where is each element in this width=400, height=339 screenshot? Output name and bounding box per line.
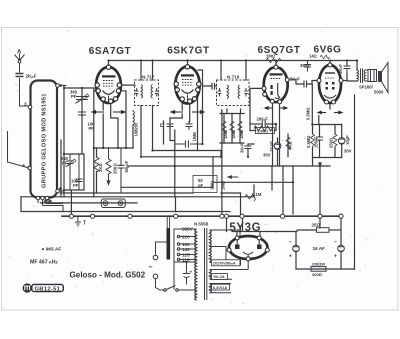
svg-text:6SA7GT: 6SA7GT	[89, 46, 132, 57]
svg-text:PF: PF	[89, 126, 95, 131]
svg-text:6SQ7GT: 6SQ7GT	[257, 45, 300, 56]
svg-text:−: −	[289, 240, 292, 246]
svg-text:300Ω: 300Ω	[312, 272, 322, 277]
svg-text:0,5MΩ: 0,5MΩ	[306, 135, 311, 148]
svg-text:pF: pF	[198, 183, 204, 188]
svg-text:~: ~	[149, 265, 153, 272]
svg-text:6V6G: 6V6G	[314, 45, 342, 56]
svg-text:3KPF: 3KPF	[240, 143, 245, 153]
svg-text:3: 3	[24, 102, 27, 107]
svg-text:GRUPPO GELOSO MOD NS1951: GRUPPO GELOSO MOD NS1951	[42, 93, 48, 188]
svg-text:PF: PF	[71, 94, 77, 99]
svg-text:230ΩW: 230ΩW	[312, 262, 326, 267]
svg-text:2X270V/80mA: 2X270V/80mA	[213, 261, 236, 265]
svg-text:6SK7GT: 6SK7GT	[167, 46, 210, 57]
svg-text:0,1M: 0,1M	[252, 192, 262, 197]
svg-text:1MΩ: 1MΩ	[266, 54, 275, 59]
svg-text:105PF: 105PF	[313, 136, 318, 148]
svg-text:+: +	[190, 270, 193, 275]
svg-text:N.5558: N.5558	[194, 222, 209, 227]
svg-text:25Ω: 25Ω	[312, 223, 321, 228]
svg-text:+: +	[334, 254, 337, 260]
svg-text:16 AF: 16 AF	[313, 246, 326, 251]
svg-text:UM6: UM6	[192, 131, 197, 141]
svg-text:200µF: 200µF	[257, 117, 269, 122]
svg-text:GB12-51: GB12-51	[35, 286, 61, 292]
svg-text:0,5MΩ: 0,5MΩ	[305, 107, 310, 120]
svg-text:6: 6	[60, 186, 63, 191]
svg-text:3MPF: 3MPF	[300, 63, 311, 68]
svg-text:3KPF: 3KPF	[338, 64, 343, 74]
svg-text:N.716: N.716	[227, 75, 240, 80]
svg-text:1MΩ: 1MΩ	[239, 130, 244, 139]
svg-text:2KΩ: 2KΩ	[98, 163, 103, 172]
svg-text:T: T	[83, 221, 86, 227]
svg-text:220: 220	[182, 234, 190, 239]
svg-text:6,3V/2A: 6,3V/2A	[213, 285, 228, 290]
svg-text:4KΩ: 4KΩ	[288, 141, 293, 150]
svg-text:PF: PF	[73, 183, 79, 188]
svg-text:A: A	[17, 50, 22, 56]
svg-text:30V: 30V	[263, 153, 271, 158]
svg-text:SP160/: SP160/	[359, 85, 374, 90]
svg-text:10 µF: 10 µF	[269, 141, 274, 152]
svg-text:20KΩ: 20KΩ	[112, 163, 117, 174]
svg-text:5Y3G: 5Y3G	[229, 222, 261, 234]
svg-text:50µPF: 50µPF	[124, 160, 129, 172]
svg-text:250Ω: 250Ω	[328, 138, 333, 148]
svg-text:10µF: 10µF	[345, 135, 350, 145]
svg-text:110: 110	[182, 257, 190, 262]
svg-text:● 965 AF: ● 965 AF	[42, 247, 62, 253]
svg-text:N.717: N.717	[142, 75, 155, 80]
svg-text:UM200: UM200	[134, 122, 139, 136]
svg-text:280V: 280V	[182, 226, 194, 231]
svg-text:−: −	[334, 240, 337, 246]
svg-text:0,5MΩ: 0,5MΩ	[257, 129, 268, 133]
svg-text:+: +	[289, 254, 292, 260]
svg-text:1MΩ: 1MΩ	[220, 181, 225, 190]
svg-text:1MΩ: 1MΩ	[231, 130, 236, 139]
svg-text:5000: 5000	[374, 90, 384, 95]
svg-text:14Ω: 14Ω	[309, 54, 317, 59]
svg-text:PF: PF	[62, 161, 68, 166]
svg-text:30V: 30V	[344, 149, 352, 154]
svg-text:MF 467 KHZ: MF 467 KHZ	[30, 260, 59, 266]
svg-text:140: 140	[182, 247, 190, 252]
svg-text:Geloso - Mod. G502: Geloso - Mod. G502	[70, 271, 146, 280]
svg-text:1MΩ: 1MΩ	[210, 181, 215, 190]
svg-text:5KPF: 5KPF	[290, 77, 300, 82]
svg-text:1MΩ: 1MΩ	[223, 130, 228, 139]
svg-text:5V-2A: 5V-2A	[214, 274, 225, 279]
